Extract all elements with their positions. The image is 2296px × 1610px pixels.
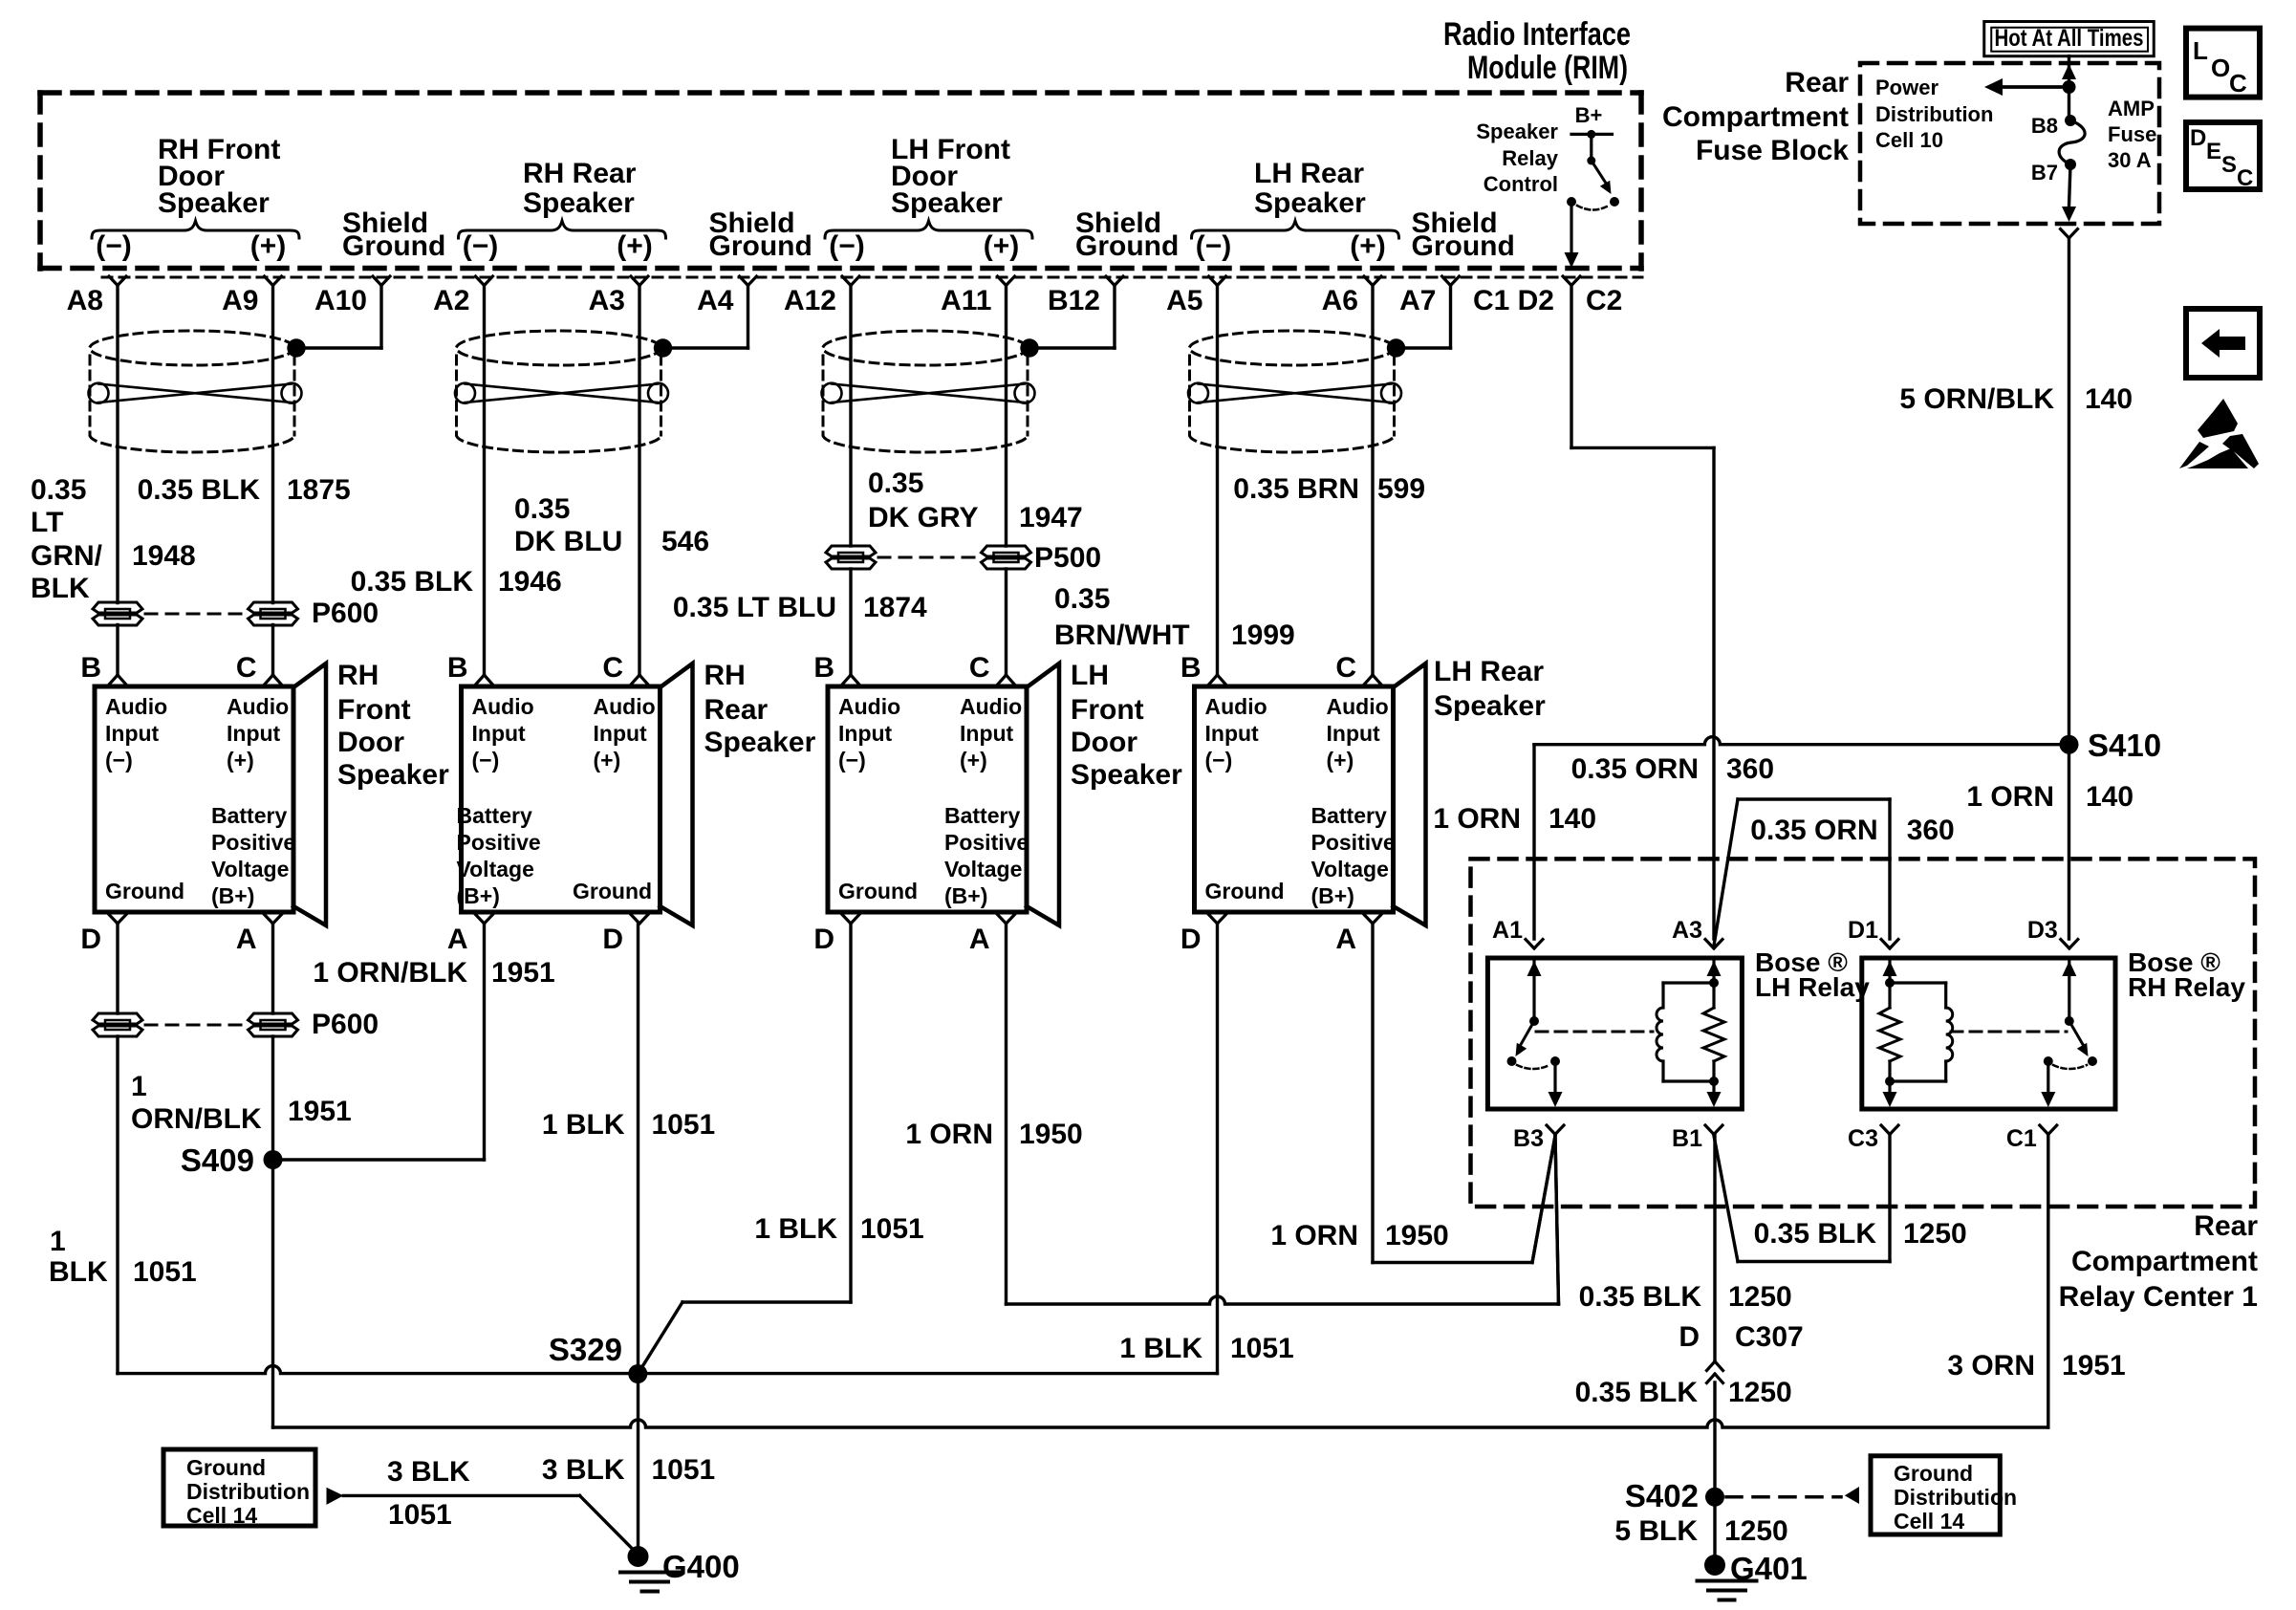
svg-text:Battery: Battery (211, 803, 287, 828)
svg-text:Voltage: Voltage (211, 857, 289, 881)
svg-text:S409: S409 (181, 1142, 254, 1178)
pin C (632, 675, 640, 685)
wire box3 A (1 ORN 1950) (1005, 924, 1007, 1304)
label 1 ORN/BLK | 1951 lower (131, 1071, 352, 1135)
svg-text:Radio Interface: Radio Interface (1443, 16, 1631, 53)
twisted pair shield (dashed cylinder) (90, 331, 294, 365)
svg-text:1 BLK: 1 BLK (542, 1109, 625, 1141)
svg-text:Door: Door (1071, 727, 1137, 758)
svg-text:A5: A5 (1166, 285, 1202, 316)
wire B1 to C307 and grounds (0.35 BLK 1250) (1713, 1136, 1716, 1361)
svg-text:C1: C1 (2006, 1125, 2037, 1152)
svg-text:S329: S329 (549, 1332, 622, 1367)
RH relay switch (2068, 959, 2070, 1021)
svg-text:D: D (80, 924, 101, 955)
svg-text:Door: Door (337, 727, 404, 758)
shield junction (1387, 338, 1405, 357)
Bose RH Relay box (1862, 958, 2115, 1109)
wire A12 (0.35 LT BLU 1874) (849, 286, 852, 547)
svg-text:Ground: Ground (1412, 230, 1515, 262)
svg-text:Input: Input (227, 721, 281, 746)
polarity labels (-) (+) (96, 230, 286, 262)
svg-text:LH: LH (1071, 660, 1109, 691)
wire A3 to D1 branch (0.35 ORN 360) (1714, 799, 1738, 946)
svg-text:Compartment: Compartment (1662, 101, 1849, 133)
svg-text:1 BLK: 1 BLK (1119, 1333, 1202, 1364)
svg-text:1947: 1947 (1019, 502, 1083, 533)
svg-text:Front: Front (1071, 694, 1144, 726)
P600 dashed link and label (145, 613, 246, 616)
pin A6 (1364, 276, 1373, 286)
svg-text:DK BLU: DK BLU (514, 526, 622, 557)
svg-text:Fuse Block: Fuse Block (1696, 135, 1849, 166)
LH relay coil (1663, 981, 1714, 984)
RH relay coil control (dashed) (1951, 1031, 2067, 1033)
svg-text:Ground: Ground (573, 879, 652, 903)
svg-text:Speaker: Speaker (158, 187, 270, 219)
svg-text:C: C (2237, 165, 2253, 191)
svg-text:0.35 BRN: 0.35 BRN (1233, 473, 1359, 505)
relay pin C3 (1881, 1125, 1890, 1135)
svg-text:0.35 LT BLU: 0.35 LT BLU (673, 592, 836, 623)
pin A (1364, 915, 1373, 925)
svg-text:A: A (447, 924, 468, 955)
svg-text:Rear: Rear (704, 694, 769, 726)
wire to S402 (0.35 BLK 1250) (1713, 1382, 1716, 1497)
svg-text:0.35 ORN: 0.35 ORN (1750, 815, 1877, 846)
svg-text:Speaker: Speaker (891, 187, 1003, 219)
LH relay coil control (dashed) (1536, 1031, 1653, 1033)
svg-text:RH Rear: RH Rear (523, 158, 637, 189)
svg-text:Relay Center 1: Relay Center 1 (2059, 1281, 2258, 1313)
twisted pair wires (bowtie) (466, 384, 659, 403)
svg-text:P600: P600 (312, 598, 379, 629)
relay pin A1 (1526, 940, 1534, 949)
ground G401 (1704, 1555, 1725, 1576)
connector C307 pin D (1679, 1321, 1803, 1353)
svg-text:1 ORN: 1 ORN (905, 1119, 993, 1150)
svg-text:A: A (236, 924, 257, 955)
wire A3 (0.35 DK BLU 546) (638, 286, 640, 676)
label 1 ORN/BLK | 1951 upper (313, 957, 554, 989)
relay pin D1 (1881, 940, 1890, 949)
svg-text:Input: Input (960, 721, 1014, 746)
svg-text:S: S (2221, 152, 2237, 178)
svg-text:Ground: Ground (1205, 879, 1285, 903)
svg-text:(−): (−) (838, 748, 866, 772)
svg-text:B+: B+ (1575, 103, 1603, 127)
svg-text:A10: A10 (314, 285, 367, 316)
svg-text:B: B (1180, 652, 1202, 684)
wire A6 (0.35 BRN 599) (1371, 286, 1374, 676)
harness connector edge (thin dashed) (102, 276, 1642, 279)
dashed link to ground distribution (1726, 1495, 1841, 1499)
svg-text:1051: 1051 (652, 1454, 716, 1486)
svg-text:Speaker: Speaker (1254, 187, 1366, 219)
svg-text:Audio: Audio (960, 694, 1022, 719)
splice S409 (264, 1150, 283, 1169)
svg-text:G401: G401 (1730, 1551, 1808, 1586)
svg-text:1874: 1874 (863, 592, 927, 623)
svg-text:ORN/BLK: ORN/BLK (131, 1103, 262, 1135)
Speaker Relay Control label (1476, 103, 1602, 196)
svg-text:Voltage: Voltage (944, 857, 1022, 881)
svg-text:Ground: Ground (838, 879, 918, 903)
svg-text:Audio: Audio (1327, 694, 1389, 719)
svg-text:D: D (602, 924, 623, 955)
svg-text:A: A (1335, 924, 1356, 955)
speaker horn (1394, 664, 1426, 925)
label 0.35 BRN/WHT | 1999 (1054, 583, 1295, 651)
svg-text:0.35: 0.35 (31, 474, 86, 506)
pin A (476, 915, 485, 925)
brace (1192, 221, 1399, 238)
fuse output wire (2069, 164, 2071, 207)
svg-text:(−): (−) (472, 748, 500, 772)
svg-text:GRN/: GRN/ (31, 540, 103, 572)
pin A11 (998, 276, 1007, 286)
svg-text:L: L (2193, 36, 2208, 65)
svg-text:1 ORN: 1 ORN (1270, 1220, 1358, 1251)
svg-text:1250: 1250 (1903, 1218, 1967, 1250)
svg-text:Speaker: Speaker (1434, 690, 1546, 722)
splice S410 (2060, 735, 2079, 754)
svg-text:D: D (1679, 1321, 1700, 1353)
Shield Ground label (342, 207, 445, 262)
LH relay switch (1532, 959, 1535, 1021)
svg-text:B7: B7 (2031, 161, 2058, 185)
connector P500 on A11 wire (982, 546, 1031, 556)
svg-text:S402: S402 (1625, 1478, 1699, 1513)
relay pin B3 (1547, 1125, 1555, 1135)
svg-text:Audio: Audio (838, 694, 900, 719)
speaker terminal labels (457, 694, 656, 908)
relay pin A3 (1705, 940, 1714, 949)
svg-text:1 ORN: 1 ORN (1433, 803, 1521, 835)
svg-text:Ground: Ground (709, 230, 812, 262)
Ground Distribution Cell 14 box (right) (1871, 1456, 2000, 1534)
svg-text:1 ORN/BLK: 1 ORN/BLK (313, 957, 467, 989)
svg-text:5 ORN/BLK: 5 ORN/BLK (1899, 383, 2054, 415)
polarity labels (-) (+) (463, 230, 653, 262)
fuse block output pin (2061, 229, 2069, 239)
svg-text:Distribution: Distribution (186, 1479, 310, 1504)
wire 3 BLK 1051 to G400 (343, 1494, 579, 1497)
svg-text:RH: RH (337, 660, 379, 691)
svg-text:B: B (447, 652, 468, 684)
svg-text:A8: A8 (67, 285, 103, 316)
svg-text:140: 140 (2085, 383, 2133, 415)
svg-text:A1: A1 (1492, 917, 1523, 944)
svg-text:1951: 1951 (288, 1096, 352, 1127)
svg-text:Audio: Audio (105, 694, 167, 719)
svg-text:1250: 1250 (1728, 1281, 1792, 1313)
pin C (998, 675, 1007, 685)
pin D (842, 915, 851, 925)
speaker circuit title RH Front (158, 134, 280, 219)
svg-text:1951: 1951 (2062, 1350, 2126, 1382)
label 0.35 BLK | 1946 (351, 566, 562, 598)
shield junction (1020, 338, 1038, 357)
svg-text:G400: G400 (662, 1549, 740, 1584)
twisted pair wires (bowtie) (98, 384, 292, 403)
svg-text:B3: B3 (1513, 1125, 1544, 1152)
Bose LH Relay box (1487, 958, 1742, 1109)
svg-text:Front: Front (337, 694, 411, 726)
Rear Compartment Relay Center 1 dashed box (1471, 859, 2256, 1207)
svg-text:B1: B1 (1672, 1125, 1702, 1152)
wire S410 to A1 (1 ORN 140) (1534, 737, 2069, 745)
svg-text:140: 140 (2086, 781, 2134, 813)
svg-text:Audio: Audio (472, 694, 534, 719)
svg-text:Ground: Ground (186, 1455, 266, 1480)
svg-text:C: C (969, 652, 990, 684)
svg-text:Fuse: Fuse (2108, 122, 2156, 146)
svg-text:Audio: Audio (1205, 694, 1267, 719)
shield drain wire (1113, 286, 1116, 349)
svg-text:DK GRY: DK GRY (868, 502, 979, 533)
svg-text:(+): (+) (984, 230, 1020, 262)
svg-text:LT: LT (31, 507, 63, 538)
svg-text:C: C (2229, 69, 2247, 98)
Power Distribution Cell 10 label (1875, 76, 1993, 152)
svg-text:Positive: Positive (211, 830, 295, 855)
wire S402 to G401 (5 BLK 1250) (1713, 1497, 1716, 1565)
pin A3 (631, 276, 639, 286)
svg-text:(−): (−) (829, 230, 865, 262)
svg-text:1051: 1051 (1230, 1333, 1294, 1364)
svg-text:Input: Input (472, 721, 527, 746)
svg-text:1950: 1950 (1019, 1119, 1083, 1150)
svg-text:(+): (+) (1327, 748, 1354, 772)
label 0.35 LT GRN/ BLK | 1948 (31, 474, 196, 604)
svg-text:Battery: Battery (1311, 803, 1387, 828)
wire B1 to C3 (0.35 BLK 1250) (1714, 1136, 1738, 1262)
S329 ground bus (118, 1366, 1218, 1374)
svg-text:3 ORN: 3 ORN (1947, 1350, 2035, 1382)
svg-text:A7: A7 (1399, 285, 1436, 316)
svg-text:1951: 1951 (491, 957, 555, 989)
svg-text:(−): (−) (1205, 748, 1233, 772)
svg-text:599: 599 (1377, 473, 1425, 505)
twisted pair shield (dashed cylinder) (457, 331, 661, 365)
svg-text:1999: 1999 (1231, 620, 1295, 651)
brace (92, 221, 299, 238)
svg-text:D: D (2190, 125, 2206, 151)
speaker RH Rear Speaker box (462, 686, 661, 912)
RH relay resistor (1885, 978, 1895, 988)
svg-text:0.35 BLK: 0.35 BLK (1754, 1218, 1877, 1250)
P600 lower dashed link and label (145, 1024, 246, 1027)
twisted pair wires (bowtie) (832, 384, 1025, 403)
svg-text:LH Relay: LH Relay (1755, 972, 1870, 1002)
svg-text:Input: Input (1327, 721, 1381, 746)
speaker circuit title RH Rear (523, 158, 637, 219)
svg-text:(+): (+) (250, 230, 287, 262)
svg-text:(−): (−) (96, 230, 132, 262)
svg-text:A11: A11 (941, 285, 991, 316)
svg-text:Ground: Ground (1075, 230, 1179, 262)
svg-text:Voltage: Voltage (457, 857, 534, 881)
svg-text:0.35 BLK: 0.35 BLK (138, 474, 261, 506)
pin B (110, 675, 119, 685)
svg-text:1948: 1948 (132, 540, 196, 572)
connector P600 on A9 wire (249, 602, 298, 613)
svg-text:B: B (80, 652, 101, 684)
svg-text:Positive: Positive (457, 830, 541, 855)
svg-text:Ground: Ground (105, 879, 184, 903)
speaker RH Front Door Speaker box (95, 686, 293, 912)
label 0.35 LT BLU | 1874 (673, 592, 927, 623)
svg-text:C: C (236, 652, 257, 684)
svg-text:30 A: 30 A (2108, 148, 2152, 172)
svg-text:BLK: BLK (31, 573, 90, 604)
wire B3 to speakers (1 ORN 1950) (1532, 1136, 1555, 1263)
wire box3 D (1 BLK 1051) (849, 924, 852, 1302)
svg-text:O: O (2211, 54, 2230, 82)
shield drain wire (379, 286, 382, 349)
svg-text:Voltage: Voltage (1311, 857, 1389, 881)
wire box1 A (1 ORN/BLK 1951) (271, 924, 274, 1013)
svg-text:0.35 BLK: 0.35 BLK (351, 566, 474, 598)
speaker LH Front Door Speaker box (828, 686, 1027, 912)
twisted pair wires (bowtie) (1199, 384, 1392, 403)
RH relay coil (1890, 981, 1946, 984)
svg-text:0.35: 0.35 (868, 468, 923, 499)
svg-text:Audio: Audio (594, 694, 656, 719)
svg-text:1051: 1051 (133, 1256, 197, 1288)
wire A5 (0.35 BRN/WHT 1999) (1216, 286, 1219, 676)
connector P500 on A12 wire (826, 546, 876, 556)
Radio Interface Module (RIM) dashed box (40, 90, 1641, 96)
svg-text:C3: C3 (1848, 1125, 1878, 1152)
svg-text:(+): (+) (227, 748, 254, 772)
svg-text:(B+): (B+) (211, 883, 254, 908)
wire box4 A (1 ORN 1950) (1371, 924, 1374, 1263)
speaker horn (293, 664, 326, 925)
svg-text:Battery: Battery (457, 803, 532, 828)
speaker name label (704, 660, 816, 758)
speaker name label (1434, 656, 1546, 722)
svg-text:BRN/WHT: BRN/WHT (1054, 620, 1190, 651)
svg-text:360: 360 (1907, 815, 1955, 846)
svg-text:1950: 1950 (1385, 1220, 1449, 1251)
svg-text:360: 360 (1726, 753, 1774, 785)
pin B (843, 675, 852, 685)
svg-text:B: B (813, 652, 834, 684)
wire A11 (0.35 DK GRY 1947) (1005, 286, 1007, 547)
svg-text:P600: P600 (312, 1009, 379, 1040)
svg-text:Speaker: Speaker (523, 187, 635, 219)
svg-text:Speaker: Speaker (1071, 759, 1182, 791)
wire C2 to A3 (0.35 ORN 360) (1570, 286, 1572, 448)
svg-text:LH Rear: LH Rear (1434, 656, 1544, 687)
shield junction (287, 338, 305, 357)
svg-text:1 ORN: 1 ORN (1966, 781, 2054, 813)
svg-text:Power: Power (1875, 76, 1939, 99)
pin C (1365, 675, 1374, 685)
wire box4 D to S329 bus (1216, 924, 1219, 1374)
wire S410 to D3 (1 ORN 140) (2068, 745, 2070, 939)
feed wire from Hot At All Times (2068, 56, 2070, 120)
speaker circuit title LH Rear (1254, 158, 1366, 219)
svg-text:Cell 14: Cell 14 (1894, 1509, 1964, 1534)
svg-text:Speaker: Speaker (1476, 120, 1558, 143)
pin A4 shield ground (740, 276, 748, 286)
DESC reference box (2186, 122, 2260, 189)
svg-text:(−): (−) (463, 230, 499, 262)
svg-text:C1 D2: C1 D2 (1473, 285, 1554, 316)
svg-text:Rear: Rear (2194, 1210, 2258, 1242)
pin D (109, 915, 118, 925)
Shield Ground label (709, 207, 812, 262)
svg-text:D: D (813, 924, 834, 955)
wire A2 (0.35 BLK 1946) (483, 286, 486, 676)
wire A9 (0.35 BLK 1875) (271, 286, 274, 603)
relay pin B1 (1705, 1125, 1714, 1135)
back arrow icon box (2186, 309, 2260, 378)
speaker circuit title LH Front (891, 134, 1010, 219)
svg-text:A9: A9 (222, 285, 258, 316)
B+ supply bar (1571, 133, 1613, 136)
svg-text:E: E (2206, 139, 2221, 164)
pin A9 (265, 276, 273, 286)
svg-text:1051: 1051 (388, 1499, 452, 1531)
speaker horn (1027, 664, 1059, 925)
svg-text:Input: Input (838, 721, 893, 746)
svg-text:A4: A4 (697, 285, 734, 316)
svg-text:Control: Control (1484, 172, 1558, 196)
svg-text:RH Relay: RH Relay (2128, 972, 2245, 1002)
svg-text:1875: 1875 (287, 474, 351, 506)
brace (459, 221, 666, 238)
label 0.35 BRN | 599 (1233, 473, 1425, 505)
speaker name label (1071, 660, 1182, 791)
Shield Ground label (1075, 207, 1179, 262)
pin D (1209, 915, 1218, 925)
pin A10 shield ground (373, 276, 381, 286)
svg-text:A12: A12 (784, 285, 836, 316)
relay pin C1 (2040, 1125, 2048, 1135)
svg-text:(+): (+) (1350, 230, 1386, 262)
pin C (265, 675, 273, 685)
Shield Ground label (1412, 207, 1515, 262)
svg-text:A3: A3 (589, 285, 625, 316)
svg-text:1051: 1051 (652, 1109, 716, 1141)
svg-text:(B+): (B+) (1311, 883, 1354, 908)
svg-text:Distribution: Distribution (1894, 1485, 2017, 1510)
label 1 BLK | 1051 on A8 wire (49, 1226, 197, 1288)
svg-text:P500: P500 (1034, 542, 1101, 574)
relay pin D3 (2061, 940, 2069, 949)
svg-text:Input: Input (594, 721, 648, 746)
pin B (1209, 675, 1218, 685)
svg-text:S410: S410 (2088, 728, 2161, 763)
svg-text:3 BLK: 3 BLK (542, 1454, 625, 1486)
svg-text:A2: A2 (433, 285, 469, 316)
label 0.35 DK BLU | 546 (514, 493, 709, 557)
wire box1 D to S329 bus (1 BLK 1051) (116, 924, 119, 1013)
pin B12 shield ground (1106, 276, 1115, 286)
pin A7 shield ground (1442, 276, 1451, 286)
svg-text:Compartment: Compartment (2071, 1246, 2258, 1277)
pin A8 (109, 276, 118, 286)
ground G400 (628, 1546, 649, 1567)
svg-text:(+): (+) (594, 748, 621, 772)
connector P600 lower on D wire (93, 1013, 142, 1024)
svg-text:(B+): (B+) (944, 883, 987, 908)
svg-text:0.35: 0.35 (514, 493, 570, 525)
